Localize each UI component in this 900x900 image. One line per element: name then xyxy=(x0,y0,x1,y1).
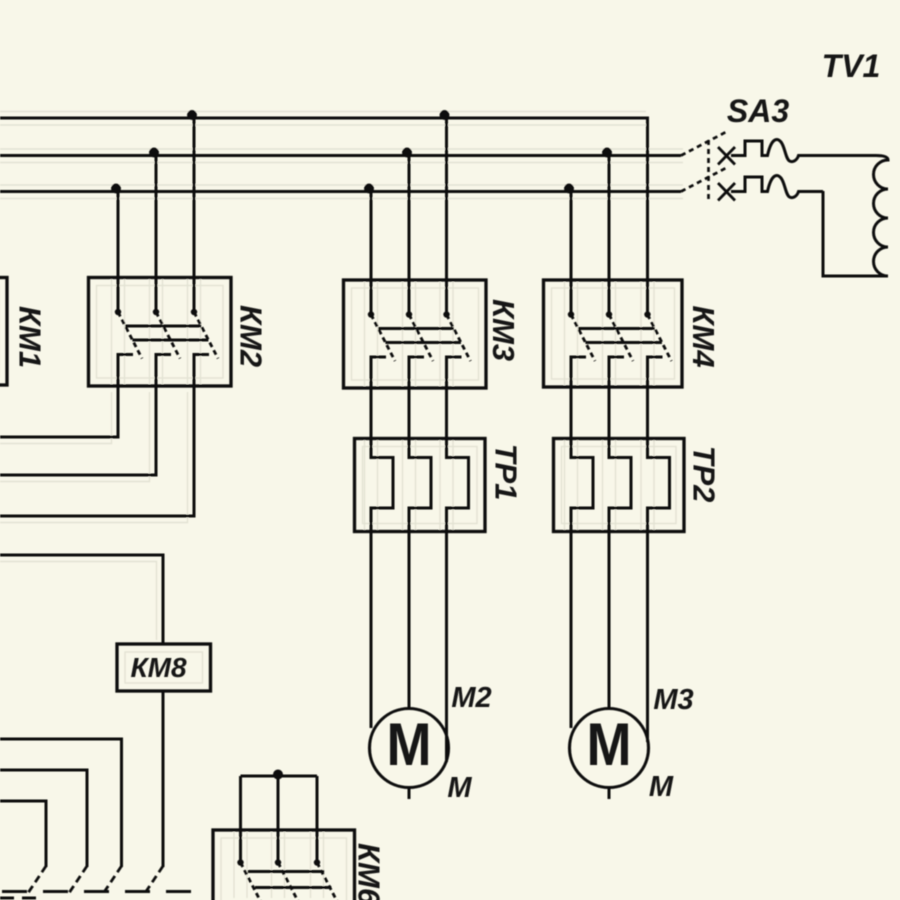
svg-text:SA3: SA3 xyxy=(727,93,789,129)
svg-text:КМ3: КМ3 xyxy=(486,299,521,361)
svg-text:ТР1: ТР1 xyxy=(489,444,524,501)
svg-text:М3: М3 xyxy=(653,684,693,716)
svg-text:ТР2: ТР2 xyxy=(687,446,722,503)
svg-text:КМ4: КМ4 xyxy=(686,305,721,367)
svg-text:М2: М2 xyxy=(451,682,491,714)
svg-text:КМ8: КМ8 xyxy=(130,652,187,683)
svg-text:М: М xyxy=(447,772,472,804)
svg-text:КМ1: КМ1 xyxy=(13,306,48,368)
svg-text:M: M xyxy=(387,711,432,778)
svg-text:КМ2: КМ2 xyxy=(234,305,269,367)
svg-text:TV1: TV1 xyxy=(822,48,881,84)
svg-text:КМ6: КМ6 xyxy=(352,843,387,900)
svg-text:M: M xyxy=(587,711,632,778)
svg-text:М: М xyxy=(649,771,674,803)
